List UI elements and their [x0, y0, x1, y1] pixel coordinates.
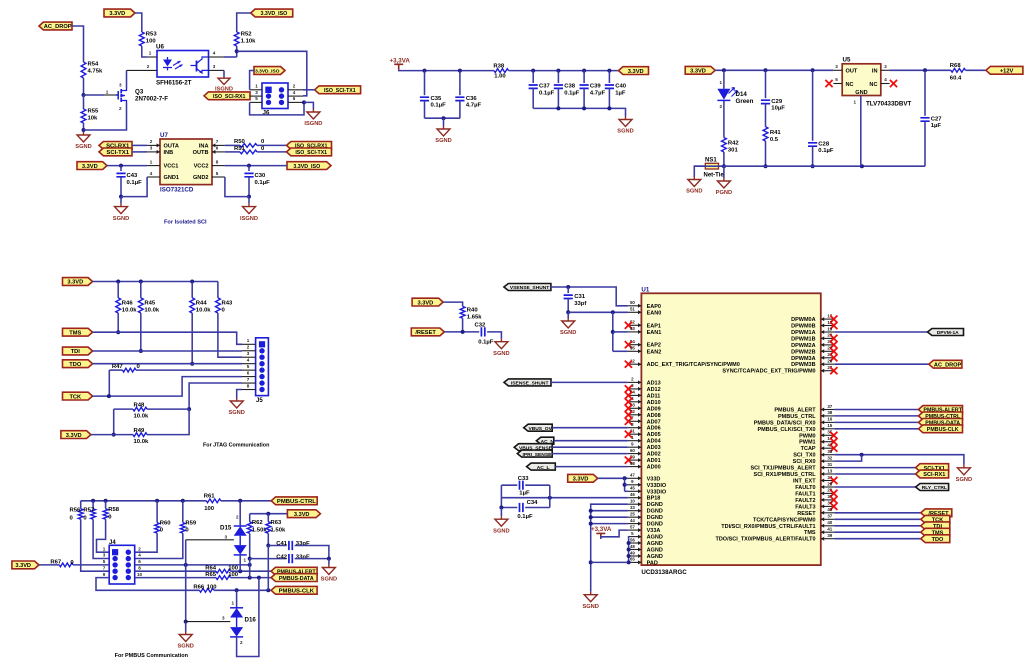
svg-text:0.5: 0.5 — [770, 137, 779, 143]
wire C42 node to PMBUS-DATA row — [249, 559, 251, 578]
resistor R60 — [155, 520, 172, 533]
svg-text:33: 33 — [827, 449, 832, 454]
pin 64 of U1 (AD11) — [628, 393, 642, 397]
svg-text:301: 301 — [728, 148, 739, 154]
svg-text:BP18: BP18 — [647, 496, 661, 502]
svg-text:C39: C39 — [590, 84, 602, 90]
pin 9 of U1 (V33DIO) — [628, 483, 642, 487]
svg-text:R63: R63 — [271, 520, 283, 526]
svg-text:1: 1 — [247, 338, 250, 343]
pin 58 of U1 (AD00) — [628, 465, 642, 469]
svg-text:AD04: AD04 — [647, 439, 662, 445]
svg-text:60: 60 — [630, 448, 635, 453]
svg-text:49: 49 — [630, 550, 635, 555]
wire R43 to J5 pin3 — [218, 313, 242, 357]
wire 3.3VD to R53 — [135, 13, 142, 32]
svg-text:4: 4 — [213, 51, 216, 56]
capacitor C28 — [808, 141, 834, 154]
wire U6 pin3 to ISGND — [223, 70, 225, 77]
svg-text:PMBUS_ALERT: PMBUS_ALERT — [774, 408, 816, 414]
wire NS1 to SGND — [694, 166, 705, 176]
pin 20 of U1 (DPWM1B) — [821, 336, 835, 340]
wire C29 to R41 — [765, 104, 767, 127]
svg-text:OUTB: OUTB — [193, 150, 209, 156]
pin 31 of U1 (SCI_TX1/PMBUS_ALERT) — [821, 466, 835, 470]
no-connect X on U1 pin 30 — [830, 496, 837, 503]
junction — [811, 68, 815, 72]
pin 54 of U1 (EAP2) — [628, 343, 642, 347]
svg-text:FAULT2: FAULT2 — [795, 498, 815, 504]
wire R53 to U6 pin1 — [142, 46, 147, 57]
pin 12 of U1 (ADC_EXT_TRIG/TCAP/SYNC/PWM0) — [628, 362, 642, 366]
svg-text:0.1µF: 0.1µF — [255, 180, 271, 186]
wire PAD row — [591, 561, 628, 563]
svg-text:0.1µF: 0.1µF — [517, 514, 533, 520]
svg-text:+3,3VA: +3,3VA — [390, 58, 411, 65]
svg-text:AD02: AD02 — [647, 452, 661, 458]
net PMBUS-ALERT — [919, 406, 963, 414]
capacitor C41 — [276, 541, 310, 550]
svg-text:60.4: 60.4 — [950, 76, 962, 82]
svg-text:C34: C34 — [527, 500, 539, 506]
svg-text:DPWM0A: DPWM0A — [791, 317, 815, 323]
wire SCI_TX1 row — [834, 467, 915, 469]
svg-text:R57: R57 — [83, 508, 95, 514]
pin 16 of U1 (PMBUS_DATA/SCI_RX0) — [821, 420, 835, 424]
svg-text:55: 55 — [630, 346, 635, 351]
wire rail to R56 — [80, 501, 82, 509]
wire PMBUS-CLK node to D16 — [236, 590, 238, 607]
svg-text:39: 39 — [827, 533, 832, 538]
svg-text:5: 5 — [216, 171, 219, 176]
wire C43 to gnd node — [120, 177, 122, 197]
junction — [190, 280, 194, 284]
svg-text:58: 58 — [630, 461, 635, 466]
resistor R45 — [138, 298, 159, 314]
svg-text:R68: R68 — [950, 63, 962, 69]
pin 63 of U1 (AD09) — [628, 406, 642, 410]
wire DPWM3B to AC_DROP — [834, 363, 929, 365]
svg-text:UCD3138ARGC: UCD3138ARGC — [641, 569, 687, 576]
pin 51 of U1 (EAN0) — [628, 310, 642, 314]
wire C41 left — [268, 545, 286, 547]
net TDI — [921, 522, 950, 530]
svg-text:C43: C43 — [127, 173, 139, 179]
svg-text:TCK/TCAP/SYNC/PWM0: TCK/TCAP/SYNC/PWM0 — [753, 517, 816, 523]
wire to C37 — [532, 71, 534, 83]
net 3.3VD — [77, 162, 107, 170]
svg-text:SCI_RX1/PMBUS_CTRL: SCI_RX1/PMBUS_CTRL — [754, 472, 817, 478]
svg-text:1: 1 — [150, 159, 153, 164]
wire R64 to PMBUS-ALERT — [231, 570, 272, 572]
wire GND2 to gnd node — [225, 177, 249, 197]
junction — [302, 100, 306, 104]
wire ground rail — [694, 165, 925, 167]
wire to C39 — [583, 71, 585, 83]
net 3.3VD — [412, 298, 443, 306]
net-tie NS1 — [704, 158, 725, 179]
wire ISENSE_SHUNT to AD13 — [551, 381, 628, 383]
pin 52 of U1 (EAP1) — [628, 323, 642, 327]
svg-text:AD06: AD06 — [647, 426, 661, 432]
svg-text:C41: C41 — [276, 541, 288, 547]
svg-text:For PMBUS Communication: For PMBUS Communication — [115, 653, 189, 659]
svg-text:FAULT0: FAULT0 — [795, 485, 815, 491]
svg-text:U7: U7 — [160, 132, 168, 139]
svg-text:INA: INA — [199, 144, 209, 150]
wire U7 OUTB to R51 — [225, 151, 240, 153]
connector J5 — [256, 338, 269, 404]
svg-text:PMBUS-DATA: PMBUS-DATA — [279, 576, 314, 582]
capacitor C39 — [580, 84, 606, 97]
wire node to Q3 gate — [84, 94, 105, 96]
svg-text:C37: C37 — [539, 84, 551, 90]
svg-text:3.3VD_ISO: 3.3VD_ISO — [293, 164, 320, 170]
junction — [82, 128, 86, 132]
svg-text:1: 1 — [854, 100, 857, 105]
net TDO — [921, 535, 950, 543]
wire J6 pin5 loop to pin6 — [250, 102, 304, 115]
svg-text:7: 7 — [216, 139, 219, 144]
junction — [556, 106, 560, 110]
net DPVM-1A — [928, 329, 964, 337]
wire D15 pin3 column — [185, 540, 187, 565]
junction — [923, 68, 927, 72]
resistor R46 — [116, 298, 137, 314]
svg-text:SGND: SGND — [493, 528, 509, 534]
wire BP18 row — [501, 497, 628, 499]
junction — [266, 588, 270, 592]
pin 27 of U1 (SYNC/TCAP/ADC_EXT_TRIG/PWM0) — [821, 369, 835, 373]
svg-text:VBUS_OV: VBUS_OV — [528, 426, 552, 432]
regulator U5 — [842, 57, 911, 108]
junction — [119, 164, 123, 168]
pin 7 of U1 (AD07) — [628, 419, 642, 423]
ground SGND — [75, 132, 91, 150]
wire DGND row — [591, 510, 628, 512]
digital isolator U7 — [160, 132, 212, 194]
capacitor C36 — [455, 96, 481, 109]
svg-text:C35: C35 — [431, 96, 443, 102]
svg-text:C40: C40 — [615, 84, 627, 90]
wire TCK to J5 pin6 — [93, 377, 243, 397]
svg-text:TDO/SCI_TX0/PMBUS_ALERT/FAULT0: TDO/SCI_TX0/PMBUS_ALERT/FAULT0 — [715, 537, 815, 543]
pin 19 of U1 (DPWM1A) — [821, 330, 835, 334]
wire R47 left — [109, 369, 122, 371]
pin 3 of U7 — [147, 150, 160, 154]
net PMBUS-CLK — [919, 425, 963, 433]
svg-text:FAULT3: FAULT3 — [795, 504, 815, 510]
no-connect X on U1 pin 52 — [625, 322, 632, 329]
wire node to C30 — [248, 166, 250, 171]
wire R50 to ISO_SCI-RX1 — [257, 144, 287, 146]
net 3.3VD — [104, 9, 135, 17]
net PMBUS-DATA — [919, 419, 963, 427]
wire U7 INA to R50 — [225, 144, 240, 146]
pin 17 of U1 (DPWM0A) — [821, 317, 835, 321]
pin 10 of U1 (DGND) — [628, 502, 642, 506]
svg-text:R47: R47 — [112, 364, 124, 370]
wire to C36 — [459, 71, 461, 96]
net TMS — [63, 328, 93, 336]
pin 36 of U1 (FAULT3) — [821, 504, 835, 508]
svg-text:DPWM3A: DPWM3A — [791, 356, 815, 362]
svg-text:4.7µF: 4.7µF — [590, 90, 606, 96]
junction — [257, 576, 261, 580]
no-connect X on U1 pin 54 — [625, 341, 632, 348]
wire R45 to TDI row — [140, 313, 142, 351]
svg-text:33: 33 — [630, 505, 635, 510]
svg-text:IPRI_SENSE: IPRI_SENSE — [523, 452, 553, 458]
resistor R49 — [133, 428, 149, 445]
svg-text:2: 2 — [293, 84, 296, 89]
wire C27 to ground rail — [924, 121, 926, 166]
no-connect X on U1 pin 17 — [830, 316, 837, 323]
wire 3.3VD to R62 top — [250, 513, 287, 515]
wire DPWM1A to flag — [834, 331, 927, 333]
wire to EAN2 — [613, 350, 628, 352]
wire bottom rail to SGND — [533, 108, 625, 116]
junction — [589, 522, 593, 526]
svg-text:3.3VD_ISO: 3.3VD_ISO — [255, 69, 280, 75]
svg-text:5: 5 — [247, 364, 250, 369]
junction — [607, 106, 611, 110]
wire R47 to TCK node — [108, 370, 110, 396]
wire R62 to C42 row — [249, 533, 251, 558]
wire C37 to bottom — [532, 88, 534, 108]
wire R48 left — [114, 408, 133, 410]
wire gnd node down — [248, 197, 250, 204]
pin 47 of U1 (V33D) — [628, 476, 642, 480]
junction — [764, 164, 768, 168]
svg-text:AD08: AD08 — [647, 413, 661, 419]
pin 4 of J5 — [242, 363, 256, 365]
wire rail to R58 — [105, 501, 107, 509]
wire node to R55 — [83, 95, 85, 109]
wire rail to R57 — [92, 501, 94, 509]
net 3.3VD — [12, 561, 39, 569]
junction — [247, 164, 251, 168]
wire to V33DIO 9 — [625, 484, 628, 486]
svg-text:1.00: 1.00 — [494, 73, 506, 79]
wire U6 pin4 to R52 node — [224, 56, 237, 58]
svg-text:3.3VD: 3.3VD — [82, 164, 98, 170]
svg-text:7: 7 — [247, 377, 250, 382]
wire gnd node down — [120, 197, 122, 204]
wire C42 right — [295, 558, 329, 560]
junction — [458, 69, 462, 73]
svg-text:1µF: 1µF — [615, 90, 626, 96]
wire R51 to ISO_SCI-TX1 — [257, 151, 287, 153]
pin 45 of U1 (V33DIO) — [628, 489, 642, 493]
net 3.3VD — [685, 66, 715, 74]
svg-text:47: 47 — [630, 473, 635, 478]
pin 29 of U1 (FAULT1) — [821, 491, 835, 495]
svg-text:33pf: 33pf — [574, 301, 586, 307]
svg-text:U5: U5 — [843, 57, 851, 64]
pin 7 of U7 — [212, 143, 225, 147]
pin 1 of U1 (AD04) — [628, 439, 642, 443]
ground ISGND — [215, 77, 233, 93]
svg-text:SCI_TX1/PMBUS_ALERT: SCI_TX1/PMBUS_ALERT — [750, 466, 816, 472]
svg-text:ISO_SCI-TX1: ISO_SCI-TX1 — [324, 88, 356, 94]
junction — [248, 576, 252, 580]
wire C33/C34 left vertical — [500, 485, 502, 507]
net PMBUS-CLK — [271, 586, 317, 594]
resistor R63 — [266, 520, 286, 534]
wire to R62 — [249, 514, 251, 522]
net ISO_SCI-TX1 — [315, 86, 361, 94]
pin 5 of J6 — [250, 101, 262, 103]
svg-text:ISO_SCI-TX1: ISO_SCI-TX1 — [295, 150, 327, 156]
svg-text:TCK: TCK — [69, 394, 82, 400]
svg-text:VCC2: VCC2 — [194, 164, 209, 170]
wire 3.3VD to R40 — [443, 302, 463, 306]
wire node to C43 — [120, 166, 122, 171]
LED D14 — [717, 80, 753, 109]
svg-text:1: 1 — [244, 558, 247, 563]
wire to SGND — [185, 622, 187, 632]
junction — [116, 330, 120, 334]
svg-text:4: 4 — [150, 171, 153, 176]
net VBUS_SENSE — [514, 444, 552, 452]
svg-text:8: 8 — [216, 159, 219, 164]
no-connect X on U1 pin 29 — [830, 490, 837, 497]
wire C40 to bottom — [608, 88, 610, 108]
wire SCI-RX1 to U7 — [132, 144, 147, 146]
net VBUS_OV — [524, 424, 553, 432]
resistor R56 — [70, 508, 84, 522]
svg-text:C38: C38 — [564, 84, 576, 90]
svg-text:19: 19 — [827, 326, 832, 331]
svg-text:AGND: AGND — [647, 535, 663, 541]
svg-text:SCI-RX1: SCI-RX1 — [923, 472, 945, 478]
svg-text:8: 8 — [138, 565, 141, 570]
junction — [461, 330, 465, 334]
pin 21 of U1 (DPWM2A) — [821, 343, 835, 347]
pin 33 of U1 (DGND) — [628, 509, 642, 513]
pin 2 of U6 — [127, 69, 158, 71]
net TDI — [63, 347, 93, 355]
svg-text:3.3VD: 3.3VD — [15, 563, 31, 569]
ground SGND — [493, 339, 509, 357]
wire rail to R59 — [182, 501, 184, 523]
net VSENSE_SHUNT — [504, 284, 551, 292]
svg-text:2: 2 — [240, 640, 243, 645]
pin 2 of U7 — [147, 143, 160, 147]
capacitor C40 — [605, 84, 627, 97]
net AC_N — [536, 437, 554, 445]
junction — [627, 560, 631, 564]
svg-text:R52: R52 — [241, 32, 253, 38]
wire R44 to TDO row — [191, 313, 193, 364]
capacitor C31 — [564, 294, 587, 307]
wire pin7 node to R49 — [147, 409, 189, 435]
svg-text:3: 3 — [103, 553, 106, 558]
wire R66 to PMBUS-CLK — [214, 589, 271, 591]
svg-text:R40: R40 — [467, 308, 479, 314]
svg-text:GND1: GND1 — [164, 175, 180, 181]
svg-text:C36: C36 — [466, 96, 478, 102]
wire to C40 — [608, 71, 610, 83]
resistor R62 — [247, 520, 267, 534]
svg-text:2: 2 — [150, 139, 153, 144]
pin 4 of U1 (AD10) — [628, 400, 642, 404]
junction — [238, 569, 242, 573]
svg-text:J5: J5 — [256, 398, 263, 404]
ground SGND — [113, 204, 129, 222]
svg-text:For Isolated SCI: For Isolated SCI — [164, 220, 207, 226]
svg-text:EAP1: EAP1 — [647, 323, 661, 329]
ground SGND — [686, 177, 702, 195]
svg-text:DPWM2B: DPWM2B — [791, 349, 815, 355]
no-connect X on U1 pin 42 — [830, 445, 837, 452]
svg-text:J4: J4 — [109, 540, 116, 546]
junction — [860, 453, 864, 457]
junction — [155, 499, 159, 503]
net AC_L — [527, 463, 556, 471]
svg-text:ISGND: ISGND — [240, 216, 258, 222]
no-connect X on U1 pin 18 — [830, 322, 837, 329]
wire U5 GND to ground rail — [860, 96, 862, 167]
resistor R58 — [103, 507, 120, 521]
wire J5 pin7 down — [189, 383, 242, 409]
net PMBUS-CTRL — [271, 497, 317, 505]
wire C31 to EAN0 row — [567, 299, 569, 313]
ground SGND — [956, 465, 972, 483]
junction — [119, 195, 123, 199]
wire to C29 — [765, 70, 767, 98]
net SCI-RX1 — [99, 142, 132, 150]
svg-text:AD09: AD09 — [647, 406, 661, 412]
svg-text:51: 51 — [630, 307, 635, 312]
net 3.3VD_ISO — [254, 67, 285, 75]
svg-text:C33: C33 — [518, 476, 530, 482]
wire /RESET to C32 — [444, 331, 479, 333]
net 3.3VD — [61, 431, 91, 439]
junction — [623, 483, 627, 487]
resistor R64 — [205, 566, 239, 574]
pin 55 of U1 (EAN2) — [628, 349, 642, 353]
pin 33 of U1 (SCI_TX0) — [821, 453, 835, 457]
pin 42 of U1 (TCAP) — [821, 446, 835, 450]
wire pmbus top rail left — [81, 500, 207, 502]
wire to SGND — [328, 559, 330, 565]
junction — [566, 310, 570, 314]
svg-text:48: 48 — [630, 544, 635, 549]
svg-text:2: 2 — [884, 64, 887, 69]
svg-text:5: 5 — [255, 96, 258, 101]
junction — [811, 164, 815, 168]
pin 44 of U1 (DGND) — [628, 522, 642, 526]
svg-text:ADC_EXT_TRIG/TCAP/SYNC/PWM0: ADC_EXT_TRIG/TCAP/SYNC/PWM0 — [647, 362, 740, 368]
wire node to C27 — [924, 70, 926, 116]
capacitor C34 — [517, 500, 538, 520]
IC U1 UCD3138ARGC body — [641, 286, 820, 576]
wire 3.3VD jtag rail — [93, 281, 218, 283]
svg-text:43: 43 — [827, 507, 832, 512]
svg-text:3: 3 — [247, 351, 250, 356]
wire R46 to TMS row — [117, 313, 119, 332]
svg-text:TMS: TMS — [804, 530, 816, 536]
svg-text:1.65k: 1.65k — [467, 315, 482, 321]
ground SGND — [560, 318, 576, 336]
wire R52 to U6 pin4 node — [236, 46, 238, 57]
svg-text:6: 6 — [138, 559, 141, 564]
svg-text:46: 46 — [630, 492, 635, 497]
wire right vertical — [549, 485, 551, 507]
svg-text:V33A: V33A — [647, 528, 661, 534]
